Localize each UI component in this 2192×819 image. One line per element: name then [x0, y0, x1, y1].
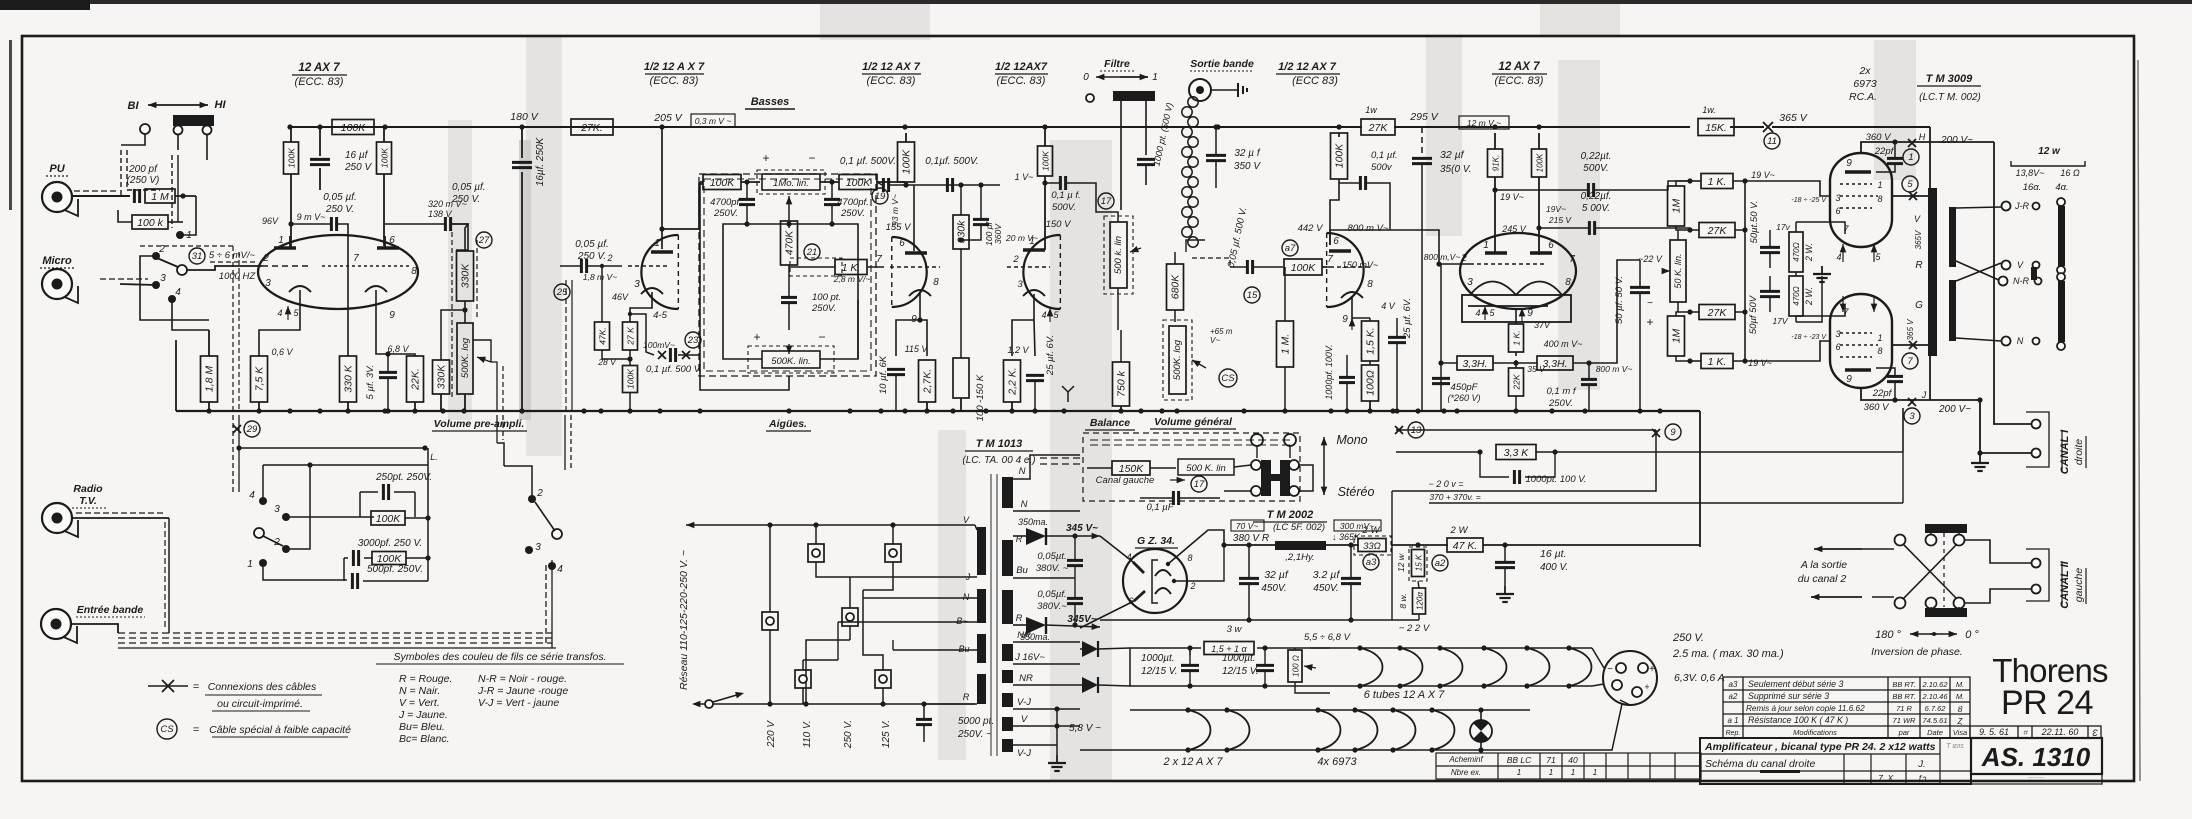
- svg-text:3: 3: [1017, 279, 1023, 290]
- fuse 110a: [808, 544, 824, 562]
- fuse 250: [885, 544, 901, 562]
- switch2 wires: [239, 447, 425, 449]
- B+ bus: [290, 126, 1362, 128]
- revision table: [1723, 677, 1970, 738]
- tap V-J a: [1013, 708, 1080, 710]
- svg-text:1 M.: 1 M.: [1280, 334, 1292, 354]
- svg-text:9: 9: [1846, 158, 1852, 169]
- svg-text:N-R = Noir - rouge.: N-R = Noir - rouge.: [478, 673, 567, 685]
- svg-text:100 k: 100 k: [137, 217, 163, 229]
- phase switch bottom circles: [1895, 598, 1906, 609]
- primary winding bar c: [977, 634, 986, 663]
- svg-text:16 µf: 16 µf: [345, 150, 369, 161]
- cap 450pF: [1432, 377, 1450, 380]
- svg-text:1,2 V: 1,2 V: [1007, 345, 1029, 355]
- main title box: [1700, 738, 1971, 784]
- svg-text:100K: 100K: [287, 148, 297, 168]
- cap 1000pf 100V fb: [1480, 452, 1509, 477]
- svg-text:32 µf: 32 µf: [1440, 149, 1465, 161]
- svg-text:BB LC: BB LC: [1507, 755, 1532, 765]
- svg-text:27: 27: [478, 235, 490, 246]
- resistor 330K: [340, 356, 357, 402]
- primary winding bar d: [977, 674, 986, 704]
- svg-text:N = Nair.: N = Nair.: [399, 685, 440, 697]
- svg-text:350 V: 350 V: [1234, 161, 1261, 172]
- svg-text:0,1 µ f.: 0,1 µ f.: [1051, 190, 1080, 201]
- svg-text:5000 pt.: 5000 pt.: [958, 716, 994, 727]
- svg-text:0,22µt.: 0,22µt.: [1581, 151, 1612, 162]
- filter black bar: [1113, 91, 1155, 101]
- bias network ground: [1796, 276, 1822, 322]
- svg-text:16 µt.: 16 µt.: [1540, 548, 1566, 560]
- svg-text:9: 9: [1342, 314, 1348, 325]
- svg-text:Volume général: Volume général: [1154, 416, 1233, 428]
- svg-text:22pf: 22pf: [1874, 146, 1895, 157]
- svg-text:360 V: 360 V: [1866, 132, 1892, 143]
- svg-text:2: 2: [536, 488, 543, 499]
- svg-text:Connexions des câbles: Connexions des câbles: [208, 681, 317, 693]
- resistor 100k: [132, 215, 168, 229]
- svg-text:500 K. lin: 500 K. lin: [1186, 463, 1226, 474]
- switch contact 1: [176, 231, 184, 239]
- svg-text:1000µt.: 1000µt.: [1141, 653, 1175, 664]
- canal II bracket: [2026, 549, 2049, 601]
- legend connection symbol: [148, 685, 188, 687]
- svg-text:BB RT.: BB RT.: [1892, 692, 1915, 701]
- wire to 47K: [1391, 544, 1448, 546]
- svg-text:500K. log: 500K. log: [1172, 339, 1183, 380]
- svg-text:2 W: 2 W: [1450, 525, 1469, 536]
- svg-text:9 m V~: 9 m V~: [297, 212, 326, 222]
- svg-text:Rep.: Rep.: [1726, 730, 1741, 737]
- svg-text:800 m V~: 800 m V~: [1596, 364, 1633, 374]
- potentiometer 500K log: [457, 323, 473, 394]
- svg-text:↓ 365K: ↓ 365K: [1332, 532, 1361, 542]
- rectifier triangle bottom: [1026, 617, 1046, 634]
- output tube OT1: [1830, 153, 1892, 247]
- svg-text:Bu: Bu: [958, 644, 969, 654]
- resistor 100K grid stopper: [1284, 259, 1322, 275]
- svg-text:RC.A.: RC.A.: [1849, 91, 1877, 103]
- resistor 100K on bus: [332, 120, 374, 135]
- mains switch: [705, 700, 713, 708]
- tube GZ34: [1123, 549, 1187, 613]
- svg-text:6973: 6973: [1853, 78, 1877, 90]
- svg-text:32 µ f: 32 µ f: [1234, 148, 1260, 159]
- phase switch bottom bar: [1925, 608, 1967, 617]
- fuse 220: [762, 612, 778, 630]
- svg-text:27K: 27K: [1707, 307, 1728, 319]
- OT1 grids dashed: [1840, 183, 1872, 185]
- svg-text:J: J: [1921, 390, 1927, 400]
- svg-text:71 R: 71 R: [1896, 704, 1912, 713]
- svg-text:400 V.: 400 V.: [1540, 562, 1568, 573]
- wire 4700 caps join: [747, 223, 832, 225]
- svg-text:100K: 100K: [1291, 262, 1317, 274]
- svg-text:~22 V: ~22 V: [1638, 254, 1663, 264]
- svg-text:1 K.: 1 K.: [1708, 176, 1727, 188]
- output tube OT2: [1830, 294, 1892, 388]
- resistor 330K upper: [457, 251, 474, 301]
- svg-text:1: 1: [1549, 768, 1553, 777]
- svg-text:a 1: a 1: [1727, 716, 1738, 725]
- svg-text:250V.: 250V.: [840, 208, 865, 219]
- svg-text:0,05 µf.: 0,05 µf.: [575, 239, 609, 250]
- svg-text:G: G: [1915, 300, 1923, 311]
- resistor 1M grid: [1277, 321, 1294, 367]
- svg-text:R: R: [1016, 534, 1023, 544]
- svg-text:7,5 K: 7,5 K: [254, 366, 266, 392]
- svg-text:4: 4: [1041, 310, 1046, 320]
- cap 25uf 6V: [1026, 374, 1044, 377]
- tube V5 half: [1327, 233, 1364, 307]
- secondary cross wires: [1956, 261, 2001, 281]
- resistor 100K tone left: [703, 175, 741, 190]
- primary tap wires: [975, 525, 977, 530]
- OT1 top wire: [1861, 142, 1930, 153]
- cap 0,1mf 250V: [1581, 378, 1597, 381]
- svg-text:7: 7: [1569, 254, 1575, 265]
- svg-text:12 w: 12 w: [1396, 553, 1406, 572]
- svg-text:−: −: [1607, 664, 1613, 675]
- svg-text:17v: 17v: [1776, 222, 1790, 232]
- shield wires from coil: [1186, 240, 1205, 252]
- svg-text:250 V.: 250 V.: [1672, 632, 1704, 644]
- V6 cathode frame: [1462, 295, 1571, 322]
- svg-text:−: −: [808, 151, 815, 165]
- resistor 1M lower: [1668, 316, 1685, 356]
- svg-text:M.: M.: [1956, 680, 1964, 689]
- svg-text:Stéréo: Stéréo: [1338, 485, 1375, 499]
- wire head to switch: [177, 134, 179, 150]
- label 12mV box: [1459, 116, 1509, 129]
- svg-text:350ma.: 350ma.: [1018, 517, 1048, 527]
- resistor 100K V6 plate: [1532, 149, 1547, 177]
- svg-text:1/2 12 AX 7: 1/2 12 AX 7: [1278, 61, 1337, 73]
- svg-text:1,8 m V~: 1,8 m V~: [583, 272, 617, 282]
- radio tv cable: [72, 517, 169, 519]
- svg-text:7: 7: [1907, 356, 1913, 367]
- svg-text:+: +: [1644, 682, 1649, 692]
- svg-text:3000pf. 250 V.: 3000pf. 250 V.: [358, 538, 422, 549]
- svg-text:1000pf. 100V.: 1000pf. 100V.: [1324, 344, 1334, 399]
- svg-text:1/2 12 AX 7: 1/2 12 AX 7: [862, 61, 921, 73]
- svg-text:250 V: 250 V: [344, 162, 372, 173]
- svg-text:215 V: 215 V: [1548, 215, 1573, 225]
- resistor 120ohm: [1413, 588, 1426, 614]
- wire to grid node: [175, 195, 196, 197]
- cap 500pf: [351, 573, 354, 589]
- resistor 100K plate V1a: [284, 142, 299, 174]
- svg-text:6,3V. 0,6 A: 6,3V. 0,6 A: [1674, 672, 1725, 684]
- svg-text:+: +: [762, 151, 769, 165]
- svg-text:0,1 m f: 0,1 m f: [1546, 386, 1576, 397]
- svg-text:G Z. 34.: G Z. 34.: [1137, 535, 1175, 547]
- legend CS symbol: [157, 719, 177, 739]
- riser x1700: [1699, 411, 1701, 547]
- OT2 bottom wire: [1861, 356, 1930, 400]
- tap V: [1013, 725, 1080, 727]
- OT2 grids dashed: [1840, 332, 1872, 334]
- svg-text:71 WR: 71 WR: [1893, 716, 1917, 725]
- coiled cable: [1182, 97, 1198, 247]
- switch rotor radio: [259, 497, 267, 505]
- svg-text:3: 3: [634, 279, 640, 290]
- svg-text:8: 8: [1187, 553, 1192, 563]
- svg-text:Basses: Basses: [751, 96, 790, 108]
- tube V6 envelope: [1460, 233, 1576, 309]
- svg-text:0,1 µf.: 0,1 µf.: [1371, 150, 1398, 161]
- xmark 365V: [1763, 122, 1773, 132]
- svg-text:500V.: 500V.: [1052, 202, 1076, 213]
- svg-text:a2: a2: [1729, 692, 1738, 701]
- svg-text:12/15 V.: 12/15 V.: [1141, 666, 1178, 677]
- svg-text:22pf: 22pf: [1872, 388, 1893, 399]
- V6 plates: [1485, 251, 1507, 254]
- svg-text:470Ω: 470Ω: [1792, 242, 1801, 261]
- svg-text:−: −: [818, 330, 825, 344]
- svg-text:Amplificateur , bicanal type: Amplificateur , bicanal type PR 24. 2 x1…: [1704, 741, 1936, 753]
- V2 cathode: [641, 288, 663, 294]
- svg-text:47 K.: 47 K.: [1453, 540, 1478, 552]
- svg-text:380V. ~: 380V. ~: [1036, 563, 1069, 574]
- V3 grid dash: [890, 266, 940, 268]
- svg-text:1M: 1M: [1671, 198, 1683, 213]
- cap 5000pf: [916, 718, 932, 721]
- wire 47K right: [1483, 544, 1700, 546]
- resistor 27K lower: [1699, 305, 1735, 320]
- resistor 470ohm 2W upper: [1789, 232, 1803, 272]
- svg-text:11: 11: [1767, 136, 1777, 147]
- svg-text:40: 40: [1568, 755, 1578, 765]
- node 31 label: [189, 248, 205, 264]
- svg-text:12 AX 7: 12 AX 7: [298, 62, 340, 74]
- svg-text:19V~: 19V~: [1546, 204, 1566, 214]
- svg-text:3,3H.: 3,3H.: [1542, 358, 1567, 370]
- svg-text:R: R: [963, 692, 970, 702]
- svg-text:12 w: 12 w: [2038, 146, 2061, 157]
- V4 plate pin1: [1023, 248, 1045, 251]
- svg-text:0 °: 0 °: [1965, 629, 1979, 641]
- svg-text:1000µt.: 1000µt.: [1222, 653, 1256, 664]
- svg-text:(LC 5F. 002): (LC 5F. 002): [1273, 522, 1325, 533]
- shield riser x566: [565, 280, 567, 411]
- GZ34 wires: [1100, 536, 1133, 562]
- svg-text:9: 9: [389, 310, 395, 321]
- resistor 470K wiper: [781, 221, 798, 265]
- arrow sortie b: [1811, 596, 1862, 598]
- resistor 1K v6 cathode: [1509, 324, 1524, 352]
- svg-text:250V.: 250V.: [811, 303, 836, 314]
- svg-text:(*260 V): (*260 V): [1447, 393, 1480, 403]
- svg-text:Filtre: Filtre: [1104, 58, 1130, 70]
- svg-text:100K: 100K: [1536, 153, 1545, 172]
- cap 0,1uF balance: [1172, 491, 1175, 505]
- svg-text:19 V~: 19 V~: [1748, 358, 1772, 368]
- svg-text:Réseau 110-125-220-250 V. ~: Réseau 110-125-220-250 V. ~: [678, 550, 690, 690]
- jack sortie bande: [1189, 79, 1211, 101]
- svg-text:9: 9: [1670, 427, 1676, 438]
- fb riser: [1902, 408, 1904, 452]
- potentiometer 500K lin: [762, 351, 820, 368]
- svg-text:16µf. 250K: 16µf. 250K: [535, 136, 546, 186]
- svg-text:27K: 27K: [1368, 122, 1389, 134]
- svg-text:J-R: J-R: [2014, 201, 2029, 211]
- balance dashed lines inner: [1090, 439, 1290, 441]
- svg-text:CS: CS: [1221, 373, 1235, 384]
- svg-text:6,8 V: 6,8 V: [387, 344, 409, 354]
- svg-text:Sortie bande: Sortie bande: [1190, 58, 1254, 70]
- svg-text:Radio: Radio: [73, 483, 103, 495]
- svg-text:Balance: Balance: [1090, 417, 1130, 429]
- svg-text:1w: 1w: [1365, 105, 1377, 115]
- svg-text:4 V: 4 V: [1381, 301, 1396, 311]
- cable bundle bottom: [118, 632, 552, 634]
- svg-text:droite: droite: [2073, 439, 2085, 465]
- dashed risers mid: [564, 415, 566, 470]
- svg-text:Bu= Bleu.: Bu= Bleu.: [399, 721, 445, 733]
- svg-text:+: +: [1646, 315, 1653, 329]
- svg-text:3: 3: [1909, 411, 1915, 422]
- svg-text:110 V.: 110 V.: [802, 720, 813, 747]
- svg-text:100K: 100K: [1334, 143, 1346, 169]
- svg-text:CANAL II: CANAL II: [2059, 560, 2071, 608]
- svg-text:115 V: 115 V: [905, 344, 929, 354]
- power connector: [1603, 651, 1657, 705]
- grid line 1K bottom: [1701, 354, 1733, 369]
- svg-text:Ɛ: Ɛ: [2092, 728, 2098, 738]
- svg-text:1w.: 1w.: [1702, 105, 1716, 115]
- diode a: [1082, 641, 1098, 657]
- pot 500k lin filter: [1110, 222, 1127, 288]
- resistor 100K plate V1b: [377, 142, 392, 174]
- svg-text:12 AX 7: 12 AX 7: [1498, 61, 1540, 73]
- entree cable: [71, 624, 118, 633]
- svg-text:V: V: [2017, 260, 2024, 270]
- label LC SF002 row: [1231, 520, 1264, 531]
- svg-text:6: 6: [389, 235, 395, 246]
- V3 plate pin6: [905, 251, 927, 254]
- svg-text:par: par: [1898, 728, 1910, 737]
- resistor 330K lower: [433, 360, 450, 394]
- svg-text:1,5 K.: 1,5 K.: [1365, 327, 1377, 354]
- svg-text:25 µf. 6V.: 25 µf. 6V.: [1402, 298, 1413, 339]
- svg-text:380 V R: 380 V R: [1233, 533, 1269, 544]
- switch rotor: [177, 265, 187, 275]
- jack ground: [1211, 89, 1238, 91]
- svg-text:du canal 2: du canal 2: [1798, 573, 1847, 585]
- svg-text:T M 1013: T M 1013: [976, 438, 1022, 450]
- fuse 125: [875, 670, 891, 688]
- bias return loop: [1392, 430, 1656, 491]
- tube V2 half 12AX7: [641, 235, 678, 309]
- wires to canal I: [1994, 142, 2031, 424]
- svg-text:450V.: 450V.: [1261, 583, 1286, 594]
- svg-text:8: 8: [933, 277, 939, 288]
- svg-text:19 V~: 19 V~: [1500, 192, 1524, 202]
- switch3 wires: [504, 466, 532, 499]
- svg-text:500K. lin.: 500K. lin.: [771, 356, 811, 367]
- secondary bar b: [1949, 280, 1956, 341]
- dashed shield box tone stack: [699, 174, 876, 376]
- svg-text:2.10.62: 2.10.62: [1921, 680, 1948, 689]
- svg-text:1: 1: [1152, 72, 1158, 83]
- resistor 15K vert: [1412, 550, 1425, 577]
- svg-text:365 V: 365 V: [1779, 112, 1807, 124]
- svg-text:4700pf.: 4700pf.: [710, 197, 742, 208]
- resistor 100K V4 plate: [1038, 146, 1053, 176]
- svg-text:3: 3: [160, 273, 166, 284]
- svg-text:ou circuit-imprimé.: ou circuit-imprimé.: [217, 698, 303, 710]
- V4 cathode parts: [1012, 320, 1034, 356]
- tube V4 half: [1023, 235, 1060, 309]
- svg-text:2: 2: [262, 253, 269, 264]
- tap V-J b: [1013, 744, 1057, 746]
- input shield dashed risers: [232, 246, 234, 411]
- wiper loop: [473, 340, 491, 362]
- svg-text:Bc= Blanc.: Bc= Blanc.: [399, 733, 450, 745]
- svg-text:12 m V ~: 12 m V ~: [1467, 118, 1501, 128]
- V4 grid: [1007, 266, 1050, 268]
- svg-text:2: 2: [1012, 254, 1019, 265]
- svg-text:3.2 µf: 3.2 µf: [1313, 569, 1341, 581]
- svg-text:7: 7: [353, 253, 359, 264]
- svg-text:(ECC. 83): (ECC. 83): [650, 75, 699, 87]
- svg-text:70 V~: 70 V~: [1236, 521, 1258, 531]
- svg-text:155 V: 155 V: [886, 222, 912, 233]
- svg-text:200 V~: 200 V~: [1940, 135, 1973, 146]
- wires to power connector: [1620, 700, 1630, 705]
- svg-text:M.: M.: [1956, 692, 1964, 701]
- svg-text:47K.: 47K.: [598, 327, 608, 345]
- cap after: [946, 178, 949, 192]
- svg-text:,2,1Hy.: ,2,1Hy.: [1285, 552, 1314, 563]
- canal I terminals: [2032, 420, 2041, 429]
- svg-text:250V.: 250V.: [1548, 398, 1573, 409]
- wire left edge down: [175, 340, 177, 411]
- svg-text:a2: a2: [1435, 558, 1446, 569]
- svg-text:3: 3: [535, 542, 541, 553]
- H 200V label: [1908, 139, 1916, 147]
- V2 plate pin1: [651, 250, 673, 253]
- svg-text:N: N: [963, 592, 970, 602]
- svg-text:V~: V~: [1210, 336, 1220, 345]
- cap 0,1uf 500V fb: [669, 348, 672, 362]
- small y symbol: [1067, 392, 1069, 402]
- V6 grid wire: [1441, 263, 1470, 265]
- svg-text:A la sortie: A la sortie: [1800, 559, 1847, 571]
- bottom filter line: [1100, 619, 1419, 621]
- node 19: [872, 188, 888, 204]
- svg-text:3: 3: [1835, 329, 1840, 339]
- svg-text:22K.: 22K.: [410, 368, 422, 391]
- svg-text:150 V: 150 V: [1046, 219, 1072, 230]
- svg-text:23: 23: [687, 335, 699, 346]
- svg-text:1 V~: 1 V~: [1015, 172, 1034, 182]
- bias chain vertical: [1744, 181, 1746, 361]
- resistor 47K: [595, 322, 610, 350]
- svg-text:4α.: 4α.: [2055, 182, 2068, 193]
- tube V1 12AX7 envelope: [258, 235, 418, 309]
- svg-text:71: 71: [1546, 755, 1556, 765]
- inductor black bar (head select): [173, 115, 214, 126]
- svg-text:Remis à jour selon copie 11.6.: Remis à jour selon copie 11.6.62: [1746, 704, 1865, 713]
- pot 500K lin vol: [1178, 459, 1234, 475]
- resistor 27K upper: [1699, 223, 1735, 238]
- svg-text:Supprimé sur série 3: Supprimé sur série 3: [1748, 691, 1829, 701]
- svg-text:13,8V~: 13,8V~: [2016, 168, 2045, 178]
- svg-text:91K.: 91K.: [1492, 155, 1501, 171]
